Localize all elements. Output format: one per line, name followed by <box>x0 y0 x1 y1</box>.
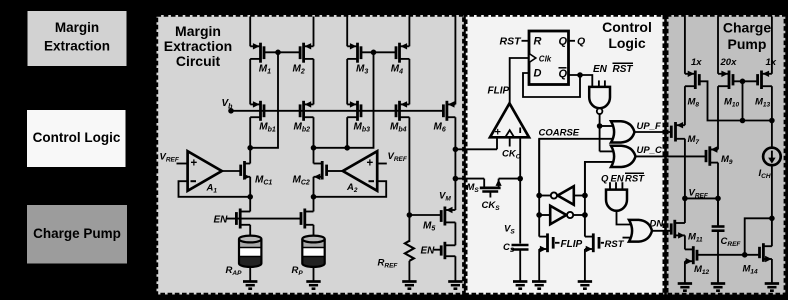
wire A2 feedback <box>314 181 387 197</box>
wire MC1 source to tail node <box>249 177 251 212</box>
wire FINE to UP_C <box>585 162 615 195</box>
op-amp A1 <box>188 151 222 191</box>
wire RAP to ground <box>249 267 251 282</box>
node M5 gate / RREF top <box>407 212 413 218</box>
wire Q output <box>569 40 576 42</box>
node latch right top <box>582 193 588 199</box>
node mirror gate bottom <box>740 118 746 124</box>
wire NAND out to UP_C gate <box>600 150 614 152</box>
wire RP to ground <box>313 267 315 282</box>
wire diode connect M3-M4 gate <box>314 52 374 148</box>
ground CS <box>513 280 527 283</box>
wire M4 drain to Mb4 source <box>408 59 410 105</box>
OR gate DN <box>629 220 652 242</box>
svg-text:RST: RST <box>500 35 523 47</box>
transistor M13 <box>760 71 763 90</box>
AND gate Q EN RST <box>609 182 611 189</box>
inverter top (points left) <box>574 195 585 197</box>
node Qbar <box>577 72 583 78</box>
legend box Charge Pump <box>27 205 127 264</box>
node VREF right <box>715 196 721 202</box>
svg-text:1x: 1x <box>766 57 777 68</box>
svg-text:Logic: Logic <box>608 35 646 51</box>
transistor EN right <box>303 209 306 229</box>
label CKS <box>489 192 491 198</box>
wire VDD lead of M1 <box>249 17 251 47</box>
wire A1 output to MC1 gate <box>222 170 240 172</box>
wire ICH down <box>771 165 773 247</box>
wire UP_C to M9 gate <box>636 155 706 157</box>
wire M3-M4 gates <box>361 51 396 53</box>
wire Vb bias line <box>231 110 442 112</box>
wire Qbar to NAND <box>569 75 593 87</box>
svg-text:RST: RST <box>625 174 645 185</box>
wire EN to ground <box>454 256 456 281</box>
wire COARSE <box>539 139 614 195</box>
wire M10 drain to M9 <box>717 86 719 149</box>
ground M12 <box>678 282 692 285</box>
wire diode connect M1-M2 gate <box>250 52 278 148</box>
node VREF left <box>682 196 688 202</box>
node M14 drain <box>769 216 775 222</box>
transistor M5 <box>443 207 446 226</box>
node M14 gate loop <box>742 252 748 258</box>
svg-text:1x: 1x <box>691 57 702 68</box>
wire A2 + input stub <box>377 163 387 165</box>
transistor MC1 <box>243 161 246 180</box>
flip-flop U1 <box>529 31 569 85</box>
svg-text:EN: EN <box>214 215 229 226</box>
svg-text:RST: RST <box>605 239 625 250</box>
wire M1 drain to Mb1 source <box>249 59 251 105</box>
svg-text:D: D <box>534 68 542 80</box>
node latch left top <box>536 193 542 199</box>
svg-text:Charge Pump: Charge Pump <box>33 226 121 241</box>
wire VDD lead of M2 <box>313 17 315 47</box>
transistor RST discharge <box>592 233 595 252</box>
wire M1-M2 gates <box>264 51 300 53</box>
svg-text:+: + <box>495 126 501 138</box>
wire Mb3 drain down <box>346 117 348 148</box>
latch left rail <box>538 139 540 237</box>
svg-text:Control: Control <box>602 19 652 35</box>
transistor Mb1 <box>259 101 262 121</box>
capacitor CREF <box>717 198 719 226</box>
wire D wrap-around <box>523 73 580 97</box>
ground EN branch <box>448 280 462 283</box>
node MC2 source <box>311 194 317 200</box>
svg-text:RST: RST <box>613 64 634 75</box>
node mirror gate <box>740 79 746 85</box>
transistor M14 <box>762 243 765 262</box>
wire M8 drain to M7 <box>684 86 686 125</box>
wire comparator + leg <box>496 137 498 149</box>
node M1-M2 gate <box>275 50 281 56</box>
wire gate node down <box>742 81 744 120</box>
wire AND to DN gate <box>617 211 632 225</box>
wire Mb4 drain to RREF <box>408 117 410 242</box>
wire Mb1 drain to MC1 drain <box>249 117 251 163</box>
wire M14 to ground <box>771 259 773 284</box>
wire comparator - leg to VS <box>519 137 521 243</box>
svg-text:COARSE: COARSE <box>539 128 580 139</box>
MTJ RAP <box>239 248 261 257</box>
wire RST to R <box>522 40 530 42</box>
inverter bottom (points right) <box>539 214 550 216</box>
svg-text:Charge: Charge <box>723 20 771 36</box>
MTJ RP <box>302 248 324 257</box>
ground RP <box>306 280 320 283</box>
svg-text:20x: 20x <box>720 57 738 68</box>
NAND gate EN RST <box>598 80 600 87</box>
node MC1 source <box>247 194 253 200</box>
svg-text:Extraction: Extraction <box>44 38 110 53</box>
wire M3 drain to Mb3 source <box>346 59 348 105</box>
wire MC2 source to tail node <box>313 177 315 212</box>
svg-text:R: R <box>534 35 542 47</box>
wire comparator output to Clk <box>510 58 529 103</box>
transistor Mb3 <box>356 101 359 121</box>
svg-text:EN: EN <box>421 246 436 257</box>
wire M5 drain to EN <box>454 222 456 245</box>
node latch left bottom <box>536 212 542 218</box>
wire DN to M11 gate <box>652 230 670 232</box>
node MC2 drain <box>311 145 317 151</box>
transistor EN left <box>239 209 242 229</box>
node VS sample <box>517 176 523 182</box>
wire EN left source to RAP <box>249 225 251 238</box>
transistor Mb2 <box>302 101 305 121</box>
node NAND output <box>597 123 603 129</box>
transistor M6 <box>445 101 448 121</box>
svg-text:Margin: Margin <box>55 20 99 35</box>
legend box Control Logic <box>27 110 126 167</box>
wire VDD lead of M3 <box>346 17 348 47</box>
ground RST <box>578 280 592 283</box>
wire M11 to M12 <box>684 235 686 249</box>
ground M14 <box>765 282 779 285</box>
wire VDD lead M8 <box>684 17 686 74</box>
wire EN gates <box>226 218 300 220</box>
latch right rail <box>584 162 586 237</box>
svg-text:Extraction: Extraction <box>164 38 232 54</box>
svg-text:Q: Q <box>601 174 609 185</box>
wire VDD lead of M4 <box>408 17 410 47</box>
wire RREF node to M5 gate <box>409 214 440 216</box>
resistor RREF <box>405 241 414 261</box>
OR gate UP_F <box>611 121 635 142</box>
svg-text:DN: DN <box>650 218 665 229</box>
ground CREF <box>711 282 725 285</box>
transistor M9 <box>708 146 711 166</box>
legend box Margin Extraction <box>28 11 127 66</box>
ground RREF <box>402 280 416 283</box>
wire UP_F to M7 gate <box>635 131 671 133</box>
wire VDD lead M13 <box>771 17 773 74</box>
svg-text:Q: Q <box>559 68 568 80</box>
transistor Mb4 <box>398 101 401 121</box>
wire CREF to ground <box>717 231 719 284</box>
svg-text:EN: EN <box>593 64 608 75</box>
wire M2 drain to Mb2 source <box>313 59 315 105</box>
OR gate UP_C <box>611 146 636 167</box>
wire Mb2 drain to MC2 drain <box>313 117 315 163</box>
svg-text:UP_F: UP_F <box>637 121 661 132</box>
op-amp A2 <box>343 151 377 191</box>
wire EN right source to RP <box>313 225 315 238</box>
transistor EN output <box>443 242 446 259</box>
node MC1 drain <box>247 145 253 151</box>
wire M9 drain down <box>717 163 719 226</box>
wire VDD lead M10 <box>717 17 719 74</box>
wire RST to ground <box>584 249 586 282</box>
svg-text:FLIP: FLIP <box>488 86 510 97</box>
wire FLIP to ground <box>538 249 540 282</box>
transistor M7 <box>674 122 677 142</box>
wire RREF to ground <box>408 261 410 282</box>
svg-text:FLIP: FLIP <box>561 239 583 250</box>
wire M7 drain down <box>684 139 686 223</box>
Charge Pump block frame <box>667 15 786 295</box>
transistor M1 <box>259 43 262 63</box>
svg-text:UP_C: UP_C <box>637 145 662 156</box>
wire M13 drain <box>771 86 773 148</box>
current source ICH <box>763 148 781 166</box>
RST stub to DN gate <box>623 237 632 239</box>
svg-text:+: + <box>367 158 374 170</box>
ground FLIP <box>532 280 546 283</box>
svg-text:Q: Q <box>577 36 585 48</box>
svg-text:+: + <box>191 158 198 170</box>
svg-text:Clk: Clk <box>539 54 552 63</box>
transistor M2 <box>302 43 305 63</box>
wire M8 gate <box>699 81 772 120</box>
transistor M10 <box>728 71 731 90</box>
wire M10-M13 gates <box>733 80 758 82</box>
node Mb3 drain junction <box>344 145 350 151</box>
comparator clock chevron CKC <box>505 130 514 137</box>
node MS tap <box>453 176 459 182</box>
wire M14 diode loop <box>745 218 772 255</box>
wire VREF node <box>685 197 718 199</box>
node latch right bottom <box>582 212 588 218</box>
node M3-M4 gate <box>371 50 377 56</box>
wire A2 output to MC2 gate <box>328 170 343 172</box>
wire A1 feedback <box>179 181 251 197</box>
wire VDD lead of M6 <box>454 17 456 105</box>
svg-text:Margin: Margin <box>175 23 221 39</box>
transistor M4 <box>398 43 401 63</box>
wire M12-M14 gate line <box>697 254 758 256</box>
comparator FLIP <box>490 103 529 137</box>
transistor MC2 <box>321 161 324 180</box>
wire NAND output <box>599 114 601 151</box>
transistor M8 <box>694 71 697 90</box>
svg-text:Pump: Pump <box>728 36 767 52</box>
transistor M3 <box>356 43 359 63</box>
svg-text:Control Logic: Control Logic <box>33 130 121 145</box>
node VM <box>453 147 459 153</box>
wire M6 drain to VM node <box>454 117 456 210</box>
transistor FLIP discharge <box>546 233 549 252</box>
node M13 drain <box>769 118 775 124</box>
Margin Extraction Circuit block frame <box>157 15 464 295</box>
wire VM to comparator + <box>455 148 497 150</box>
wire CS to ground <box>519 250 521 282</box>
capacitor CS <box>512 244 529 247</box>
wire A1 + input stub <box>177 163 188 165</box>
svg-text:Q: Q <box>559 35 568 47</box>
transistor M12 <box>692 246 695 264</box>
ground RAP <box>243 280 257 283</box>
Control Logic block frame <box>466 15 664 295</box>
svg-text:Circuit: Circuit <box>176 53 221 69</box>
transistor M11 <box>673 220 676 238</box>
wire EN gate stub <box>434 249 441 251</box>
wire M12 to ground <box>684 261 686 283</box>
wire NAND out to UP_F gate <box>600 125 614 127</box>
